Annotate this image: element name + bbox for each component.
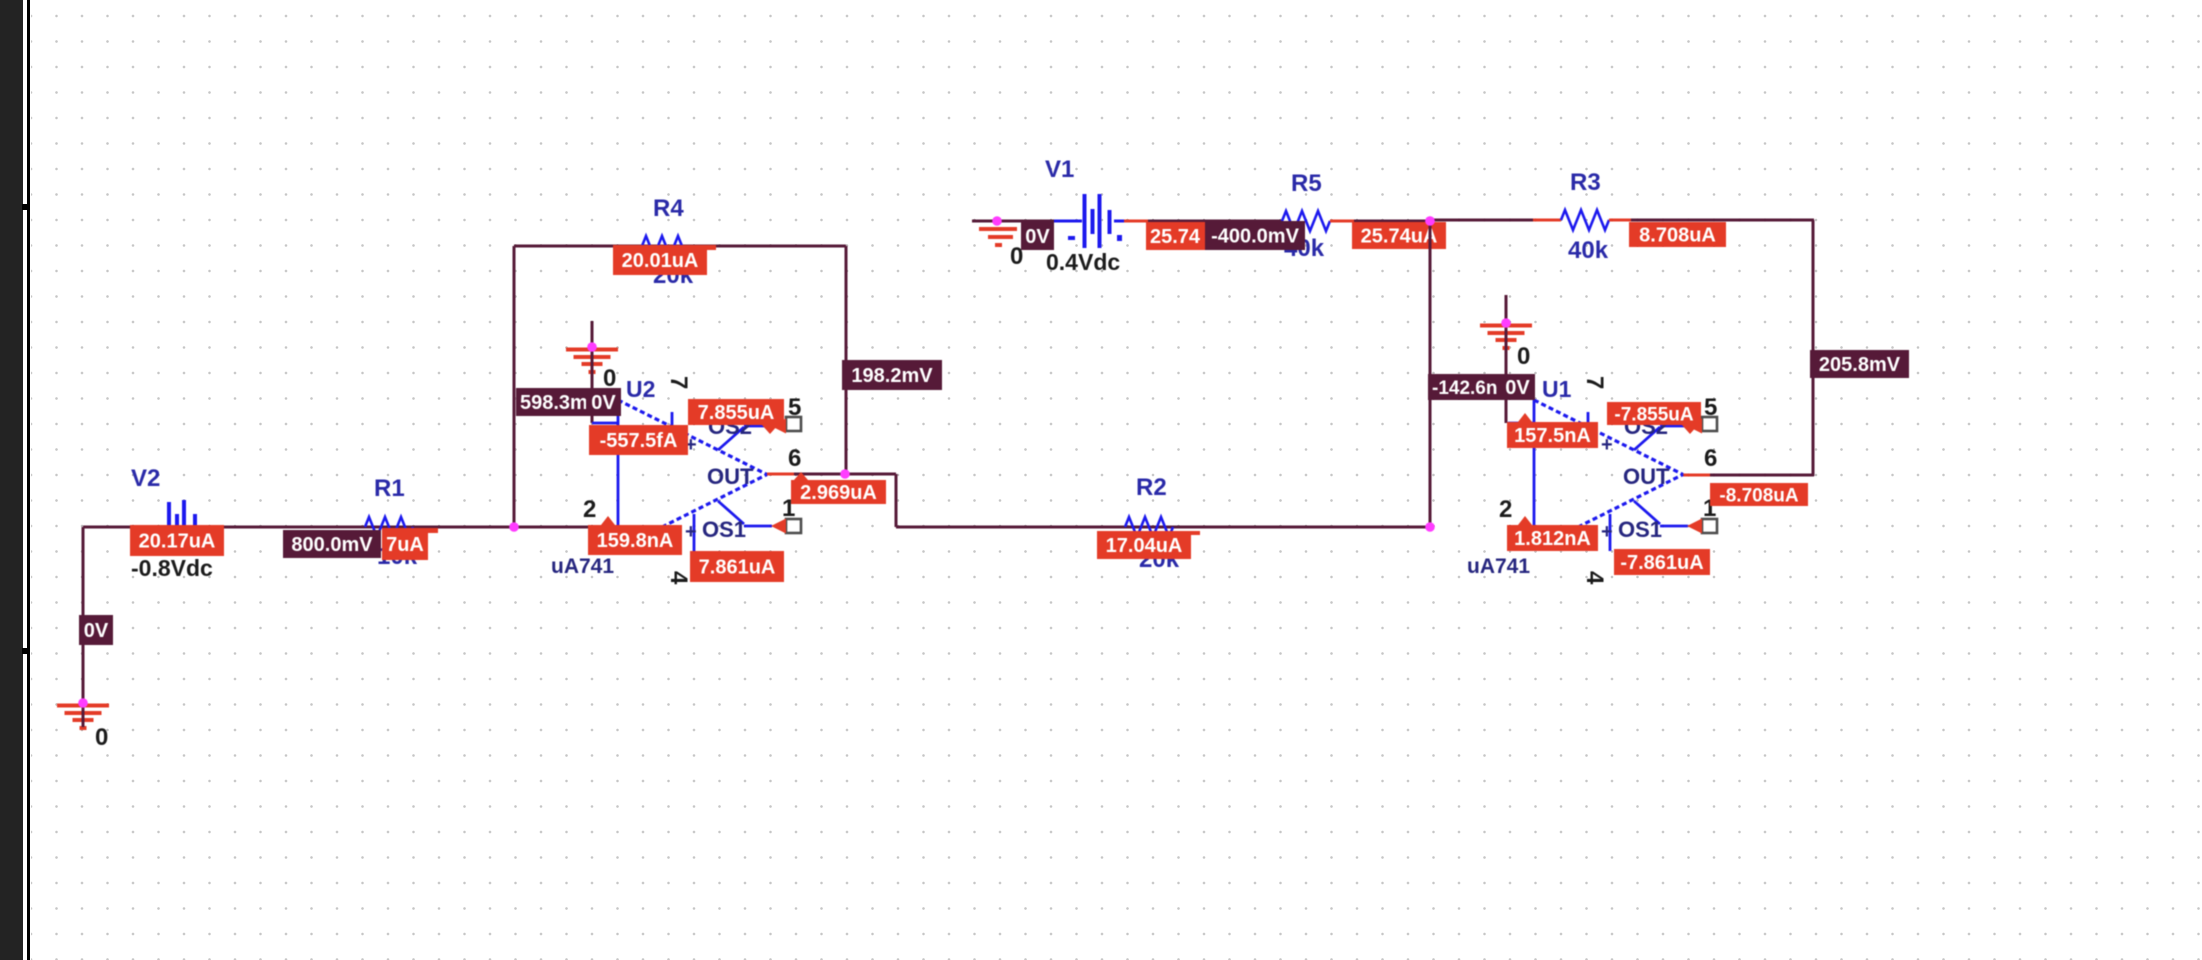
svg-text:OUT: OUT xyxy=(1623,464,1670,489)
resistor R1 xyxy=(365,517,413,537)
text V2 value xyxy=(131,555,213,581)
svg-text:7.861uA: 7.861uA xyxy=(699,557,776,579)
svg-text:0: 0 xyxy=(603,365,616,392)
text U2 pin4 xyxy=(665,571,692,585)
svg-text:V2: V2 xyxy=(131,465,160,492)
wire V1 gnd lead xyxy=(972,220,1058,223)
wire U1 gnd xyxy=(1505,295,1508,423)
wire feedback1 left xyxy=(513,246,516,527)
svg-text:-7.861uA: -7.861uA xyxy=(1620,552,1703,574)
text U1 pin7 xyxy=(1581,376,1608,389)
label V -142.6n xyxy=(1428,374,1512,400)
svg-text:4: 4 xyxy=(665,571,692,585)
text U2 minus mark xyxy=(685,521,697,543)
label V 198.2mV xyxy=(842,360,942,390)
svg-text:7: 7 xyxy=(665,376,692,389)
text U2 uA741 xyxy=(551,555,614,578)
pin square U2 OS1 xyxy=(786,519,801,533)
wire U2 out xyxy=(794,474,1430,527)
ground 0 V1 xyxy=(979,227,1017,247)
battery V2 bars xyxy=(167,500,197,526)
text R3 refdes xyxy=(1570,169,1601,196)
sidebar black strip xyxy=(0,0,23,960)
svg-text:7.855uA: 7.855uA xyxy=(698,402,775,424)
svg-text:0V: 0V xyxy=(1505,377,1530,399)
label V 205.8mV xyxy=(1810,350,1909,378)
ground 0 V2 xyxy=(57,694,109,730)
label V 598.3m xyxy=(516,388,598,416)
wire U1 out red xyxy=(1683,474,1710,477)
svg-text:800.0mV: 800.0mV xyxy=(291,534,373,556)
label I(R4) 20.01uA xyxy=(613,245,716,275)
svg-text:R4: R4 xyxy=(653,195,684,222)
svg-text:+: + xyxy=(685,521,697,543)
svg-text:0.4Vdc: 0.4Vdc xyxy=(1046,249,1120,275)
pin square U1 OS2 xyxy=(1702,417,1717,431)
text U2 pin5 xyxy=(788,394,801,421)
label I -7.855uA xyxy=(1607,402,1701,434)
svg-text:OS1: OS1 xyxy=(1618,517,1662,542)
text U1 minus mark xyxy=(1601,521,1613,543)
wire U1 out xyxy=(1710,474,1814,477)
svg-text:198.2mV: 198.2mV xyxy=(851,365,933,387)
text V1 value xyxy=(1046,249,1120,275)
text U1 gnd 0 xyxy=(1517,343,1530,370)
text U1 pin4 xyxy=(1581,571,1608,585)
wire node to R3 xyxy=(1430,219,1533,222)
label I 159.8nA xyxy=(588,516,682,555)
text R2 value xyxy=(1139,546,1180,573)
battery V1 bars xyxy=(1083,194,1112,248)
text U1 refdes xyxy=(1542,376,1572,402)
label I 7.855uA xyxy=(688,399,784,434)
sidebar tick 2 xyxy=(22,648,28,654)
svg-text:U1: U1 xyxy=(1542,376,1572,402)
label I(V2) 20.17uA xyxy=(130,525,224,556)
svg-text:0V: 0V xyxy=(84,620,109,642)
pin square U2 OS2 xyxy=(786,417,801,431)
label I 25.74 clipped xyxy=(1146,222,1205,250)
text U1 pin6 xyxy=(1704,445,1717,472)
svg-text:6: 6 xyxy=(788,445,801,472)
wire U2 gnd xyxy=(591,321,594,423)
text U1 pin1 xyxy=(1703,495,1716,522)
svg-text:-0.8Vdc: -0.8Vdc xyxy=(131,555,213,581)
resistor R4 xyxy=(642,236,690,256)
svg-text:2: 2 xyxy=(583,496,596,523)
svg-text:R2: R2 xyxy=(1136,474,1167,501)
text U2 OS2 xyxy=(708,414,752,439)
text U2 pin2 xyxy=(583,496,596,523)
node V2 gnd dot xyxy=(78,698,88,708)
text U2 refdes xyxy=(626,376,655,402)
wire feedback1 right xyxy=(845,246,848,474)
label I -557.5fA xyxy=(589,425,688,455)
wire R5 to node xyxy=(1354,220,1430,223)
svg-text:20.01uA: 20.01uA xyxy=(622,250,699,272)
node R2-U1 dot xyxy=(1425,522,1435,532)
label I 7.861uA xyxy=(690,551,784,582)
label V 0V U2 xyxy=(586,388,621,416)
wire V2 vertical xyxy=(82,527,85,704)
svg-text:R1: R1 xyxy=(374,475,405,502)
text R5 refdes xyxy=(1291,170,1322,197)
svg-text:20.17uA: 20.17uA xyxy=(139,531,216,553)
node U2 gnd dot xyxy=(587,342,597,352)
text U2 gnd 0 xyxy=(603,365,616,392)
text R1 refdes xyxy=(374,475,405,502)
node U2 out dot xyxy=(840,469,850,479)
svg-text:-400.0mV: -400.0mV xyxy=(1211,226,1299,248)
arrow U1 OS1 xyxy=(1687,519,1702,534)
text U2 pin7 xyxy=(665,376,692,389)
op-amp U2 xyxy=(592,400,772,551)
op-amp U1 xyxy=(1508,400,1688,551)
svg-text:8.708uA: 8.708uA xyxy=(1639,225,1716,247)
node V1 gnd dot xyxy=(992,216,1002,226)
svg-text:2: 2 xyxy=(1499,496,1512,523)
text U1 OS2 xyxy=(1624,414,1668,439)
text U1 OUT xyxy=(1623,464,1670,489)
svg-text:-142.6n: -142.6n xyxy=(1432,378,1497,399)
svg-text:25.74uA: 25.74uA xyxy=(1361,226,1438,248)
text U2 pin1 xyxy=(782,495,795,522)
ground 0 U1 xyxy=(1480,323,1532,362)
svg-text:U2: U2 xyxy=(626,376,655,402)
svg-text:159.8nA: 159.8nA xyxy=(597,530,674,552)
svg-text:7uA: 7uA xyxy=(386,534,424,556)
svg-text:0: 0 xyxy=(95,724,108,751)
text R4 value xyxy=(653,262,694,289)
label I 1.812nA xyxy=(1507,516,1598,551)
text U2 plus mark xyxy=(685,434,697,456)
text U2 OS1 xyxy=(702,517,746,542)
svg-text:7: 7 xyxy=(1581,376,1608,389)
svg-text:17.04uA: 17.04uA xyxy=(1106,535,1183,557)
resistor R5 xyxy=(1282,211,1330,231)
svg-text:R3: R3 xyxy=(1570,169,1601,196)
svg-text:-557.5fA: -557.5fA xyxy=(600,430,678,452)
text U2 pin6 xyxy=(788,445,801,472)
arrow U2 OS2 xyxy=(771,419,786,434)
svg-text:OUT: OUT xyxy=(707,464,754,489)
svg-text:0: 0 xyxy=(1517,343,1530,370)
node junction R1-R4 dot xyxy=(509,522,519,532)
label I -7.861uA xyxy=(1614,549,1710,575)
arrow U1 OS2 xyxy=(1687,419,1702,434)
resistor R2 xyxy=(1125,517,1173,537)
resistor R3 xyxy=(1561,210,1609,230)
label V -400.0mV xyxy=(1205,221,1305,250)
text U2 OUT xyxy=(707,464,754,489)
label I 8.708uA xyxy=(1629,222,1726,247)
wire R5 red xyxy=(1330,220,1354,223)
text R1 value xyxy=(377,543,418,570)
text U1 plus mark xyxy=(1601,434,1613,456)
text R5 value xyxy=(1284,235,1325,262)
text U1 pin2 xyxy=(1499,496,1512,523)
label I(R2) 17.04uA xyxy=(1097,531,1200,559)
source V2 refdes xyxy=(131,465,160,492)
sidebar tick 1 xyxy=(22,204,28,210)
wire V1-R5 xyxy=(1148,220,1282,223)
ground 0 U2 xyxy=(566,347,618,386)
label I 7uA xyxy=(382,528,438,560)
node R5-R3 dot xyxy=(1425,216,1435,226)
wire node down xyxy=(1429,220,1432,527)
svg-text:OS1: OS1 xyxy=(702,517,746,542)
text V1 gnd 0 xyxy=(1010,243,1023,270)
battery V1 leads xyxy=(1054,220,1124,223)
svg-text:205.8mV: 205.8mV xyxy=(1819,354,1901,376)
wire feedback1 top xyxy=(514,245,846,248)
label V 0V U1 xyxy=(1500,374,1535,400)
arrow U2 OS1 xyxy=(771,519,786,534)
text R2 refdes xyxy=(1136,474,1167,501)
wire main stage1 xyxy=(83,526,592,529)
svg-text:598.3m: 598.3m xyxy=(520,392,588,414)
label I 157.5nA xyxy=(1507,413,1598,448)
label I -8.708uA xyxy=(1710,483,1808,506)
pin square U1 OS1 xyxy=(1702,519,1717,533)
text U1 uA741 xyxy=(1467,555,1530,578)
wire over label x1430 xyxy=(1429,221,1432,250)
text U1 OS1 xyxy=(1618,517,1662,542)
svg-text:V1: V1 xyxy=(1045,156,1074,183)
wire V1 to R5 red xyxy=(1124,220,1148,223)
svg-text:R5: R5 xyxy=(1291,170,1322,197)
text R4 refdes xyxy=(653,195,684,222)
wire U2 out red xyxy=(767,473,794,476)
svg-text:6: 6 xyxy=(1704,445,1717,472)
svg-text:uA741: uA741 xyxy=(551,555,614,578)
svg-text:1.812nA: 1.812nA xyxy=(1514,528,1591,550)
wire R3 to corner xyxy=(1631,220,1814,476)
svg-text:0V: 0V xyxy=(1025,226,1050,248)
svg-text:0V: 0V xyxy=(591,392,616,414)
node U1 gnd dot xyxy=(1501,318,1511,328)
text R3 value xyxy=(1568,237,1609,264)
svg-text:25.74: 25.74 xyxy=(1150,226,1201,248)
battery V1 minus xyxy=(1068,236,1075,240)
label I 25.74uA xyxy=(1352,222,1446,249)
wire R3 red right xyxy=(1609,219,1631,222)
label V 800.0mV xyxy=(283,530,381,558)
wire R3 left red xyxy=(1533,219,1561,222)
svg-text:40k: 40k xyxy=(1568,237,1609,264)
svg-text:+: + xyxy=(1601,434,1613,456)
label I 2.969uA xyxy=(791,472,886,504)
svg-text:uA741: uA741 xyxy=(1467,555,1530,578)
svg-text:+: + xyxy=(1601,521,1613,543)
node dot over R5 label xyxy=(1425,216,1435,226)
label V 0V top xyxy=(1021,222,1054,250)
text V2 gnd 0 xyxy=(95,724,108,751)
source V1 refdes xyxy=(1045,156,1074,183)
label V 0V left xyxy=(79,615,113,645)
battery V1 plus xyxy=(1117,235,1122,241)
svg-text:-7.855uA: -7.855uA xyxy=(1614,404,1693,425)
svg-text:157.5nA: 157.5nA xyxy=(1514,425,1591,447)
text U1 pin5 xyxy=(1704,394,1717,421)
sidebar vertical line xyxy=(27,0,30,960)
svg-text:-8.708uA: -8.708uA xyxy=(1719,485,1798,506)
svg-text:2.969uA: 2.969uA xyxy=(800,482,877,504)
svg-text:4: 4 xyxy=(1581,571,1608,585)
